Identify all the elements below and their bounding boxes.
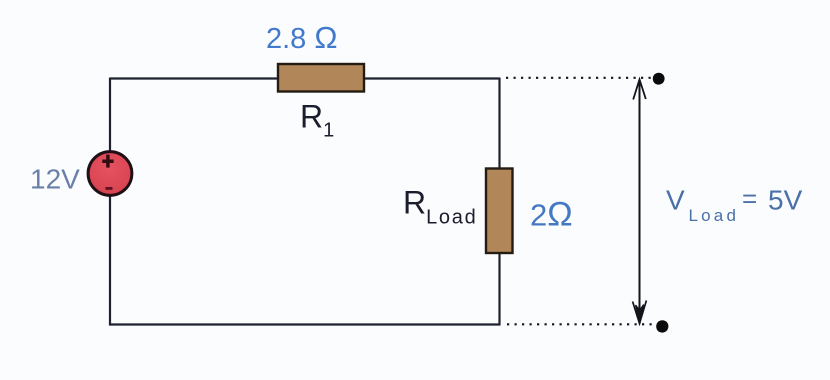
svg-text:V: V [666, 185, 685, 216]
measurement arrow V_Load [633, 80, 647, 324]
svg-text:5V: 5V [768, 185, 803, 216]
dotted link top node [506, 77, 651, 79]
resistor R1 [278, 64, 364, 92]
wire: right vertical lower (R_Load to bottom corner) [498, 253, 500, 326]
svg-text:2.8 Ω: 2.8 Ω [266, 20, 338, 55]
label V_Load = 5V [666, 184, 803, 226]
wire: bottom horizontal [109, 323, 500, 325]
dotted link bottom node [507, 323, 652, 325]
wire: right vertical upper (top corner to R_Load) [498, 78, 500, 169]
wire: top-left horizontal (source top to R1 left) [110, 77, 277, 79]
svg-text:Load: Load [689, 206, 740, 225]
node terminal bottom [656, 320, 668, 332]
wire: top-right horizontal (R1 right to right corner) [365, 77, 500, 79]
wire: left vertical upper (top wire down to source) [109, 78, 111, 152]
wire: left vertical lower (source to bottom wire) [109, 196, 111, 326]
svg-text:=: = [742, 184, 757, 214]
resistor R_Load [486, 169, 513, 254]
svg-text:12V: 12V [30, 164, 80, 195]
voltage source V1 [88, 152, 132, 196]
node terminal top [653, 73, 665, 85]
svg-text:2Ω: 2Ω [530, 196, 573, 234]
